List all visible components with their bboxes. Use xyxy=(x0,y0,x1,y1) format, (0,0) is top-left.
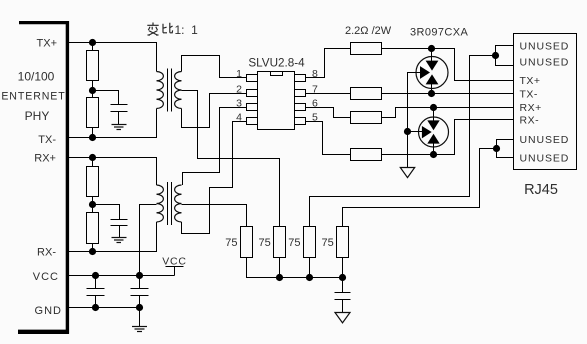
TVS D2 stem bottom xyxy=(433,147,435,155)
svg-text:RX-: RX- xyxy=(520,114,540,126)
resistor R3 xyxy=(87,167,99,197)
wire SLVU pin7 to R6 xyxy=(306,93,351,95)
node D1 bottom junction xyxy=(428,90,435,97)
chassis ground triangle right xyxy=(400,168,414,178)
wire RX+ xyxy=(69,158,157,186)
node chassis junction xyxy=(404,128,411,135)
PHY box right bar xyxy=(66,21,69,334)
wire GND rail xyxy=(69,307,140,309)
wire SLVU pin5 to R8 xyxy=(306,122,351,155)
wire R8 to D2 bottom xyxy=(382,154,434,156)
node unused bottom junction xyxy=(493,145,500,152)
node TX+ junction xyxy=(89,39,96,46)
TVS D2 left wire xyxy=(408,131,419,133)
wire R7 to RJ45 RX+ xyxy=(382,108,514,118)
node RX+ junction xyxy=(89,154,96,161)
transformer T1 label 变比1:1 xyxy=(147,23,198,38)
wire R3-R4 xyxy=(92,197,94,213)
TVS arrestor D2 xyxy=(419,117,449,148)
capacitor C2 xyxy=(93,205,128,238)
ground for C1 xyxy=(112,125,127,130)
node rail P2 xyxy=(276,274,283,281)
wire unused top to 75ohm P3 xyxy=(310,56,496,227)
resistor P3 75ohm xyxy=(304,227,316,258)
wire R1-R2 xyxy=(92,81,94,98)
IC U1 notch xyxy=(271,72,283,76)
wire R1 stub xyxy=(92,43,94,51)
IC U1 pin 2 xyxy=(247,90,258,97)
node R1/R2 junction xyxy=(89,87,96,94)
wire T1 secondary center tap to 75ohm P2 xyxy=(182,91,280,227)
resistor P2 75ohm xyxy=(274,227,286,258)
node rail P3 xyxy=(306,274,313,281)
wire R6 to RJ45 TX- xyxy=(382,93,514,95)
IC U1 pin 7 xyxy=(295,90,306,97)
wire T1 secondary bottom to SLVU pin2 xyxy=(182,94,247,128)
svg-text:VCC: VCC xyxy=(33,271,59,283)
resistor R6 2.2ohm xyxy=(351,88,382,100)
wire SLVU pin8 to R5 xyxy=(306,49,351,78)
resistor P1 75ohm xyxy=(241,227,253,258)
transformer T2 core xyxy=(168,182,172,225)
wire VCC rail xyxy=(69,275,175,277)
TVS D1 left wire to chassis xyxy=(408,73,417,168)
svg-text:RJ45: RJ45 xyxy=(524,182,558,198)
svg-text:4: 4 xyxy=(236,112,242,124)
wire T1 secondary top to SLVU pin1 xyxy=(182,56,247,78)
node D2 top junction xyxy=(430,104,437,111)
wire unused pair top bracket xyxy=(496,46,514,66)
IC U1 pin 1 xyxy=(247,75,258,82)
svg-text:GND: GND xyxy=(35,305,62,317)
svg-text:ENTERNET: ENTERNET xyxy=(1,90,65,102)
wire T2 primary center tap to VCC rail xyxy=(140,205,157,276)
svg-text:RX-: RX- xyxy=(37,247,56,259)
wire T2 secondary top to SLVU pin3 xyxy=(183,108,247,186)
node VCC tap xyxy=(136,272,143,279)
node D2 bottom junction xyxy=(430,151,437,158)
wire unused bottom to 75ohm P4 xyxy=(343,149,497,227)
IC U1 pin 6 xyxy=(295,104,306,111)
node RX- junction xyxy=(89,248,96,255)
IC U1 pin 4 xyxy=(247,118,258,125)
PHY box top bar xyxy=(19,21,69,24)
resistor P4 75ohm xyxy=(337,227,349,258)
TVS D1 stem top xyxy=(431,49,433,57)
resistor R4 xyxy=(87,213,99,244)
svg-text:TX+: TX+ xyxy=(520,75,541,87)
node VCC C3 xyxy=(92,272,99,279)
transformer T1 core xyxy=(168,69,172,112)
svg-text:10/100: 10/100 xyxy=(18,70,55,84)
resistor R2 xyxy=(87,98,99,128)
IC U1 pin 5 xyxy=(295,118,306,125)
capacitor C1 xyxy=(93,91,128,125)
svg-text:SLVU2.8-4: SLVU2.8-4 xyxy=(248,57,305,70)
svg-text:PHY: PHY xyxy=(25,109,50,123)
node GND C3 xyxy=(92,304,99,311)
svg-text:75: 75 xyxy=(288,237,300,249)
wire RX- xyxy=(69,222,157,252)
svg-text:UNUSED: UNUSED xyxy=(520,134,570,146)
svg-text:TX-: TX- xyxy=(38,134,56,146)
IC U1 pin 3 xyxy=(247,104,258,111)
node unused top junction xyxy=(492,52,499,59)
wire T2 secondary center tap to 75ohm P1 xyxy=(182,205,247,227)
wire unused pair bottom bracket xyxy=(497,140,514,158)
node R3/R4 junction xyxy=(89,201,96,208)
IC U1 pin 8 xyxy=(295,75,306,82)
svg-text:RX+: RX+ xyxy=(34,153,56,165)
wire D2 bottom to RJ45 RX- xyxy=(434,120,514,155)
wire T2 secondary bottom to SLVU pin4 xyxy=(182,122,247,234)
TVS D2 stem top xyxy=(433,108,435,118)
svg-text:1: 1: 1: 1 xyxy=(175,23,199,37)
svg-text:TX+: TX+ xyxy=(37,38,57,50)
transformer T1 secondary coil xyxy=(175,72,182,109)
resistor R1 xyxy=(87,51,99,81)
svg-text:75: 75 xyxy=(322,237,334,249)
svg-text:75: 75 xyxy=(225,237,237,249)
capacitor C4 xyxy=(131,276,149,308)
RJ45 connector box xyxy=(514,34,577,170)
svg-text:2: 2 xyxy=(236,83,242,95)
resistor R5 2.2ohm xyxy=(351,43,382,55)
wire R5 to TVS D1 and RJ45 TX+ xyxy=(382,49,514,81)
capacitor C3 xyxy=(87,276,105,308)
svg-text:UNUSED: UNUSED xyxy=(520,41,570,53)
svg-text:8: 8 xyxy=(312,68,318,80)
node GND C4 xyxy=(136,304,143,311)
wire R2 to TX- xyxy=(92,128,94,138)
transformer T2 primary coil xyxy=(157,185,164,222)
transformer T2 secondary coil xyxy=(175,185,182,222)
IC U1 body xyxy=(258,72,295,130)
TVS D1 stem bottom xyxy=(431,89,433,94)
svg-text:VCC: VCC xyxy=(162,256,187,268)
VCC symbol xyxy=(162,256,187,276)
transformer T1 primary coil xyxy=(157,72,164,109)
svg-text:RX+: RX+ xyxy=(520,102,542,114)
node rail P4 xyxy=(339,274,346,281)
svg-text:1: 1 xyxy=(236,68,242,80)
wire R3 stub xyxy=(92,158,94,167)
svg-text:3R097CXA: 3R097CXA xyxy=(410,27,468,39)
chassis ground triangle bottom xyxy=(335,313,350,323)
wire SLVU pin6 to R7 xyxy=(306,108,351,118)
wire TX- xyxy=(69,109,157,138)
node R5/D1 junction xyxy=(428,45,435,52)
wire R4 to RX- xyxy=(92,244,94,252)
svg-text:2.2Ω /2W: 2.2Ω /2W xyxy=(345,25,392,37)
svg-text:3: 3 xyxy=(236,98,242,110)
wire common rail of 75ohm resistors xyxy=(247,258,343,278)
wire TX+ from PHY to T1 xyxy=(69,43,157,72)
resistor R8 2.2ohm xyxy=(351,149,382,161)
capacitor C5 xyxy=(335,278,351,313)
node TX- junction xyxy=(89,134,96,141)
resistor R7 2.2ohm xyxy=(351,112,382,124)
svg-text:TX-: TX- xyxy=(520,89,538,101)
svg-text:UNUSED: UNUSED xyxy=(520,56,570,68)
PHY box bottom bar xyxy=(18,330,69,334)
svg-text:UNUSED: UNUSED xyxy=(520,152,570,164)
svg-text:75: 75 xyxy=(259,237,271,249)
TVS arrestor D1 xyxy=(416,56,448,89)
ground symbol bottom xyxy=(132,308,147,332)
ground for C2 xyxy=(112,238,127,243)
